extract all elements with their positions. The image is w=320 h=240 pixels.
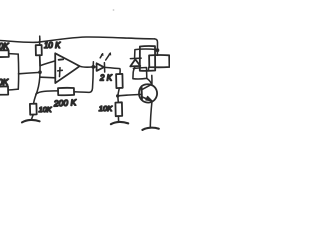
diode D2 triangle xyxy=(130,59,140,66)
svg-text:10K: 10K xyxy=(39,105,53,114)
op-amp plus symbol xyxy=(58,68,63,77)
wire relay bottom to loop xyxy=(147,67,149,71)
LED D1 cathode bar xyxy=(103,63,105,72)
resistor R2 left horizontal top (cut) xyxy=(0,50,9,57)
wire output xyxy=(80,66,93,67)
wire plus node vertical xyxy=(34,55,41,104)
relay K1 outline loop xyxy=(140,46,155,71)
svg-text:2 K: 2 K xyxy=(99,74,113,83)
wire LED to R6 xyxy=(105,67,120,74)
node dot relay top xyxy=(156,48,160,52)
svg-text:10 K: 10 K xyxy=(44,41,61,50)
wire top-right corner down xyxy=(155,39,158,55)
resistor R1 10K vertical box xyxy=(39,39,41,66)
op-amp U1 triangle xyxy=(55,53,79,83)
wire R3 to merge bar xyxy=(8,88,18,91)
op-amp minus symbol xyxy=(59,58,64,61)
wire R6 to base node xyxy=(118,88,119,95)
transistor Q1 collector xyxy=(142,84,151,89)
wire R7 to ground xyxy=(117,116,119,121)
wire node to R7 xyxy=(117,96,120,102)
wire base xyxy=(118,94,141,95)
wire left merge bar xyxy=(17,54,19,89)
ground GND3 xyxy=(142,128,158,130)
resistor R5 200K box xyxy=(58,88,74,95)
svg-text:10K: 10K xyxy=(0,78,9,87)
wire diode bottom loop xyxy=(133,66,147,79)
transistor Q1 emitter xyxy=(142,97,151,101)
LED D1 arrow small xyxy=(100,54,102,58)
wire output to LED xyxy=(93,66,96,68)
ground GND1 xyxy=(22,120,40,122)
relay K1 coil box xyxy=(149,55,169,67)
transistor Q1 circle xyxy=(139,84,157,102)
LED D1 triangle xyxy=(97,63,104,71)
node output dot xyxy=(91,65,95,69)
node junction dot xyxy=(38,70,42,74)
resistor R3 left horizontal bottom (cut) xyxy=(0,86,8,94)
wire R4 to ground xyxy=(32,115,34,120)
diode D2 cathode bar xyxy=(130,57,141,59)
LED D1 arrow long xyxy=(106,53,111,60)
wire collector node xyxy=(147,75,152,85)
wire relay node to diode top xyxy=(135,49,158,58)
resistor R6 2K box xyxy=(116,74,123,88)
svg-text:200 K: 200 K xyxy=(53,97,77,108)
wire feedback right and up xyxy=(74,62,93,93)
node base dot xyxy=(116,94,119,97)
resistor R4 10K vertical box xyxy=(30,104,37,115)
wire emitter down xyxy=(150,101,152,127)
ground GND2 xyxy=(111,122,128,124)
resistor R7 10K box xyxy=(115,102,122,116)
svg-text:10K: 10K xyxy=(0,42,9,51)
svg-text:10K: 10K xyxy=(99,104,113,113)
wire top supply rail xyxy=(0,37,155,42)
wire merge to junction xyxy=(19,72,41,73)
wire noninverting input xyxy=(40,76,55,79)
transistor Q1 base bar xyxy=(141,87,143,99)
wire feedback left xyxy=(36,91,58,94)
speck xyxy=(113,9,115,11)
wire inverting input xyxy=(40,61,55,66)
wire R2 to merge bar xyxy=(9,53,18,56)
